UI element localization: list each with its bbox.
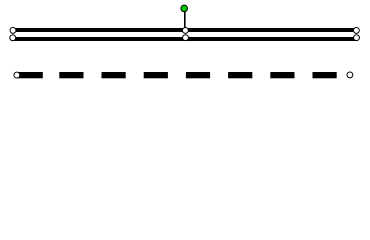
dashed line dash 2 [59,72,83,78]
dashed line left endpoint circle [14,72,20,78]
selection handle right bottom [354,35,360,41]
selection handle middle bottom [183,35,189,41]
dashed line dash 3 [102,72,126,78]
selection handle right top [353,27,359,33]
dashed line dash 4 [144,72,168,78]
double line upper stroke [13,28,357,32]
dashed line dash 5 [186,72,210,78]
selection handle left bottom [10,35,16,41]
dashed line dash 7 [270,72,294,78]
dashed line right endpoint circle [347,72,353,78]
rotation handle stem [184,12,186,29]
dashed line dash 6 [228,72,252,78]
selection handle middle top [182,27,188,33]
double line lower stroke [13,37,357,41]
dashed line dash 8 [313,72,337,78]
dashed line dash 1 [17,72,43,78]
selection handle left top [10,27,16,33]
rotation handle (green) [181,5,188,12]
